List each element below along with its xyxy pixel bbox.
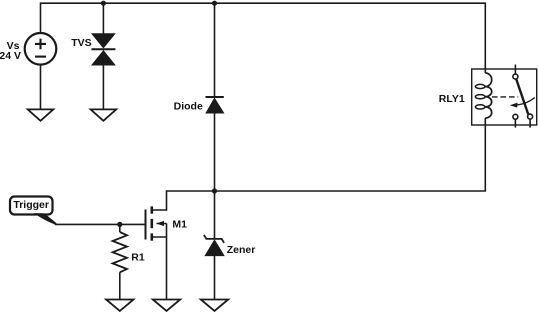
svg-text:Trigger: Trigger <box>13 199 49 211</box>
mosfet M1 <box>146 206 167 240</box>
svg-text:M1: M1 <box>172 218 187 230</box>
ground at TVS <box>91 109 117 120</box>
wire TVS top lead <box>102 3 104 34</box>
wire top rail with Vs lead and right drop <box>41 3 486 73</box>
net label Trigger callout <box>10 197 57 225</box>
diode (flyback) <box>206 97 224 113</box>
TVS diode <box>91 34 115 65</box>
wire TVS bottom lead <box>102 65 104 110</box>
wire diode branch lower <box>214 113 216 191</box>
wire Vs bottom lead <box>40 65 42 110</box>
zener diode <box>204 235 224 256</box>
svg-text:RLY1: RLY1 <box>439 93 465 105</box>
svg-text:R1: R1 <box>131 251 145 263</box>
wire gate lead <box>55 223 145 225</box>
ground at zener <box>201 300 228 312</box>
svg-text:TVS: TVS <box>71 37 91 49</box>
resistor R1 <box>113 232 127 272</box>
wire R1 bottom lead <box>119 272 121 299</box>
wire M1 source lead <box>166 237 168 300</box>
relay RLY1 <box>472 65 537 128</box>
node junction bottom rail / zener <box>212 188 217 193</box>
node junction top rail / diode branch <box>212 1 217 6</box>
ground at M1 source <box>153 300 180 312</box>
node junction gate / R1 <box>117 222 122 227</box>
wire R1 top lead <box>119 224 121 232</box>
node junction top rail / TVS <box>101 1 106 6</box>
svg-text:Diode: Diode <box>174 101 203 113</box>
ground at R1 <box>106 300 133 312</box>
wire zener bottom lead <box>214 256 216 300</box>
voltage source Vs 24 V <box>25 33 57 65</box>
wire zener branch upper <box>214 191 216 239</box>
wire bottom rail to M1 drain <box>153 191 215 210</box>
svg-text:Zener: Zener <box>227 244 256 256</box>
wire diode branch upper <box>214 3 216 97</box>
wire relay bottom drop and bottom rail <box>215 118 486 191</box>
ground at Vs <box>28 109 54 120</box>
svg-text:24 V: 24 V <box>0 50 21 62</box>
